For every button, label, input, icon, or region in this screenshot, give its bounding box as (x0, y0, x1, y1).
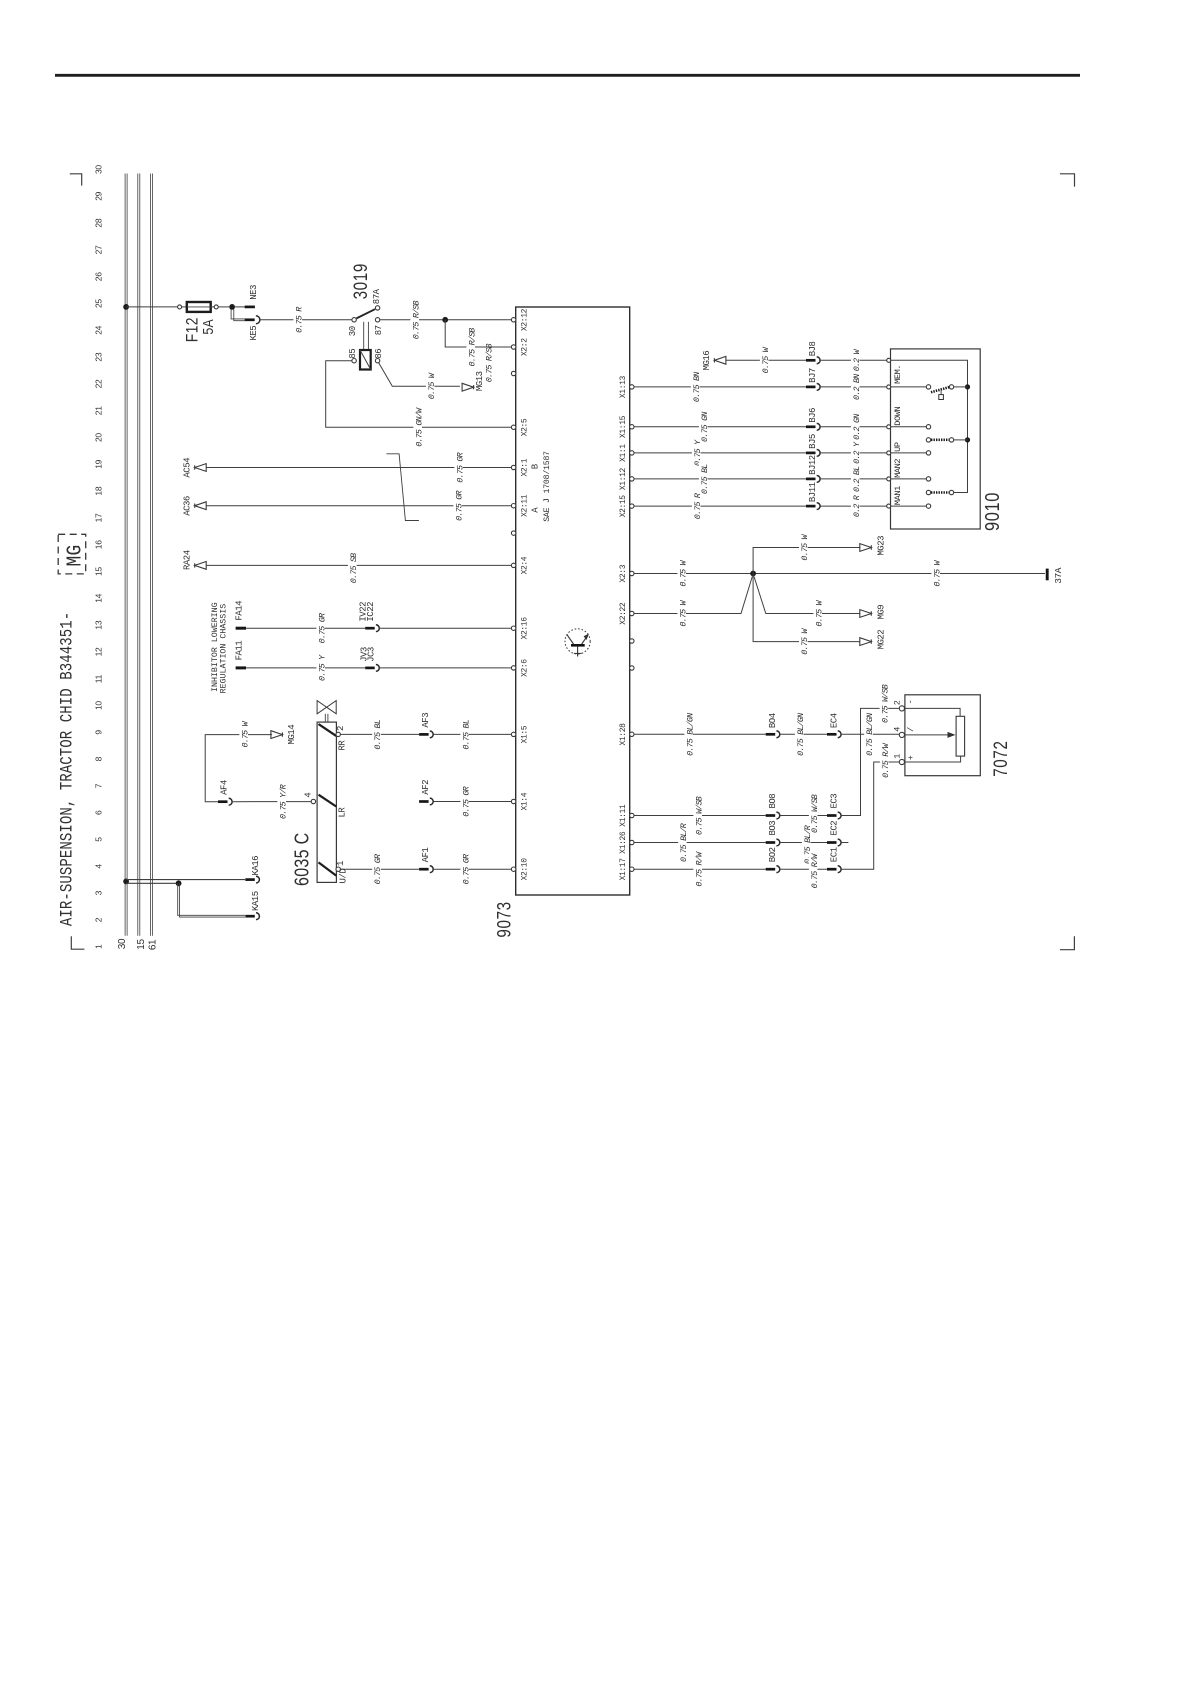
svg-text:X2:2: X2:2 (521, 338, 530, 356)
connector BO3 (766, 841, 776, 844)
9010 pin MAN1 (887, 504, 891, 508)
svg-text:0.2 GN: 0.2 GN (852, 414, 862, 440)
svg-text:X1:26: X1:26 (619, 831, 628, 854)
drawing frame corner mark top-left (70, 174, 82, 186)
wire relay 85 to ECU X2:5, 0.75 GN/W (326, 361, 512, 428)
wire bus 30 to fuse F12 (126, 306, 178, 308)
svg-text:0.75 W: 0.75 W (932, 559, 942, 586)
svg-text:REGULATION CHASSIS: REGULATION CHASSIS (220, 604, 229, 694)
ECU pin X1:11 (630, 813, 634, 817)
svg-text:X2:16: X2:16 (521, 617, 530, 640)
wire branch to ground MG22, 0.75 W (753, 574, 860, 642)
svg-text:0.2 Y: 0.2 Y (852, 441, 862, 464)
connector FA14 (lowering chassis) (236, 627, 246, 630)
svg-text:19: 19 (94, 459, 104, 468)
drawing frame corner mark bottom-right (1060, 936, 1075, 950)
svg-text:AF4: AF4 (220, 780, 230, 795)
svg-text:61: 61 (148, 939, 159, 950)
svg-text:IC22: IC22 (366, 602, 376, 622)
ground point 37A (1046, 569, 1049, 581)
ECU pin X2:12 (511, 318, 515, 322)
wire MG16 to BJ8, 0.75 W (726, 359, 806, 361)
ECU pin X2:2 (511, 345, 515, 349)
svg-text:+: + (906, 755, 916, 760)
wire 6035 U/D to connector AF1, 0.75 GR (340, 868, 419, 870)
ECU pin X2:15 (630, 504, 634, 508)
svg-text:MG13: MG13 (475, 371, 485, 391)
svg-text:MAN1: MAN1 (893, 486, 903, 505)
svg-text:1: 1 (336, 861, 346, 866)
svg-text:U/D: U/D (339, 869, 349, 884)
svg-text:21: 21 (94, 406, 104, 415)
svg-text:MG9: MG9 (877, 605, 887, 620)
ECU pin X1:5 (511, 732, 515, 736)
ground MG22 (860, 638, 872, 646)
connector BJ12 (806, 478, 816, 481)
svg-text:0.75 BL: 0.75 BL (700, 464, 710, 494)
svg-text:7072: 7072 (989, 740, 1011, 776)
svg-text:0.75 BN: 0.75 BN (692, 372, 702, 402)
ECU pin X1:4 (511, 799, 515, 803)
wire ECU X1:26 to BO3, 0.75 BL/R (634, 842, 766, 844)
fuse F12 5A (178, 305, 182, 309)
svg-text:X2:12: X2:12 (521, 308, 530, 331)
9010 contact wires (891, 386, 927, 388)
wire BJ6 to switch 9010, 0.2 GN (820, 426, 887, 428)
ECU pin X2:22 (630, 611, 634, 615)
junction on R/SB wire (442, 317, 448, 323)
wire AF4 to 6035 pin 4, 0.75 Y/R (232, 801, 311, 803)
wire to connector KA15 (double) (178, 883, 245, 915)
relay mechanical link (363, 322, 365, 350)
wire stub NE3 (235, 306, 245, 308)
svg-text:AC36: AC36 (183, 496, 193, 516)
svg-text:NE3: NE3 (249, 285, 259, 300)
switch body 6035 (317, 722, 336, 882)
svg-text:28: 28 (94, 218, 104, 227)
svg-text:0.75 W: 0.75 W (800, 628, 810, 655)
svg-text:6: 6 (94, 810, 104, 815)
svg-text:X1:13: X1:13 (619, 375, 628, 398)
9010 supply rail (891, 360, 968, 492)
svg-text:AC54: AC54 (183, 458, 193, 478)
svg-text:37A: 37A (1053, 567, 1064, 583)
svg-text:X2:3: X2:3 (619, 564, 628, 582)
wire stub after EC2 (841, 842, 848, 844)
svg-text:KA16: KA16 (251, 856, 261, 876)
ground MG13 (462, 383, 474, 391)
wire BO8 to EC3, 0.75 W/SB (780, 815, 827, 817)
wire IC22 to ECU X2:16 (379, 627, 511, 629)
svg-text:3: 3 (94, 890, 104, 895)
control switch 9010 (891, 349, 981, 529)
svg-text:RR: RR (338, 740, 348, 751)
connector AC36 (195, 502, 207, 510)
svg-text:X2:4: X2:4 (521, 556, 530, 574)
svg-text:0.75 W: 0.75 W (800, 533, 810, 560)
connector BJ8 (806, 359, 816, 362)
power bus 15 (137, 174, 139, 936)
ground MG14 (271, 731, 283, 739)
svg-text:0.2 BL: 0.2 BL (852, 466, 862, 492)
wire EC4 to 7072 pin 4, 0.75 BL/GN (841, 733, 899, 735)
ECU pin (unused) (630, 639, 634, 643)
wire BO4 to EC4, 0.75 BL/GN (780, 733, 827, 735)
connector AF3 (419, 733, 429, 736)
svg-text:BO2: BO2 (768, 847, 778, 862)
connector EC4 (827, 733, 837, 736)
svg-text:JC3: JC3 (367, 647, 377, 662)
ECU pin X2:4 (511, 563, 515, 567)
svg-text:12: 12 (94, 647, 104, 656)
connector KE5 (245, 318, 255, 321)
svg-text:16: 16 (94, 540, 104, 549)
twisted pair symbol (386, 454, 419, 521)
svg-text:0.75 BL/R: 0.75 BL/R (679, 823, 689, 862)
svg-text:0.75 W: 0.75 W (678, 599, 688, 626)
connector EC2 (827, 841, 837, 844)
svg-text:BJ6: BJ6 (808, 408, 818, 423)
svg-text:0.75 W: 0.75 W (678, 559, 688, 586)
svg-text:23: 23 (94, 352, 104, 361)
ECU pin X1:13 (630, 385, 634, 389)
svg-text:0.75 R: 0.75 R (294, 307, 304, 333)
svg-text:0.75 BL: 0.75 BL (461, 719, 471, 749)
drawing frame corner mark bottom-left (71, 936, 84, 949)
svg-text:0.75 W: 0.75 W (814, 599, 824, 626)
connector EC3 (827, 814, 837, 817)
ECU pin X1:12 (630, 477, 634, 481)
svg-text:6035 C: 6035 C (291, 832, 313, 886)
ECU pin X2:1 (511, 465, 515, 469)
svg-text:0.75 R/SB: 0.75 R/SB (467, 328, 477, 367)
wire AC54 to ECU X2:1, 0.75 GR (206, 467, 511, 469)
svg-text:4: 4 (94, 864, 104, 869)
svg-text:29: 29 (94, 191, 104, 200)
wire FA14 to connector IV22, 0.75 GR (246, 627, 365, 629)
wire ECU X1:13 to BJ7, 0.75 BN (634, 386, 806, 388)
7072 pin 4 (899, 732, 904, 737)
wire 6035 RR to connector AF3, 0.75 BL (340, 733, 419, 735)
svg-text:X2:11: X2:11 (521, 494, 530, 517)
svg-text:4: 4 (893, 727, 903, 732)
power bus 30 (124, 174, 126, 936)
7072 pin 2 (899, 706, 904, 711)
wire BJ12 to switch 9010, 0.2 BL (820, 478, 887, 480)
page header rule (55, 74, 1080, 77)
connector BO8 (766, 814, 776, 817)
svg-text:EC2: EC2 (829, 821, 839, 836)
9010 pin (supply) (887, 358, 891, 362)
9010 switch MEM blade (926, 385, 930, 389)
svg-text:0.75 BL/GN: 0.75 BL/GN (796, 713, 806, 756)
relay pin 87 (375, 318, 379, 322)
svg-text:7: 7 (94, 783, 104, 788)
connector JV3/JC3 (365, 667, 375, 670)
wire fuse F12 to node NE3 (211, 306, 215, 308)
svg-text:BO4: BO4 (768, 713, 778, 728)
9010 switch MAN1 blade (926, 490, 930, 494)
connector BJ5 (806, 452, 816, 455)
wire ECU X2:3 to ground 37A, 0.75 W (634, 573, 1045, 575)
svg-text:5: 5 (94, 837, 104, 842)
svg-text:27: 27 (94, 245, 104, 254)
svg-text:2: 2 (94, 917, 104, 922)
svg-text:MG: MG (63, 545, 87, 567)
svg-text:0.75 Y: 0.75 Y (317, 654, 327, 681)
svg-text:X2:1: X2:1 (521, 458, 530, 476)
ECU pin (unused) (511, 371, 515, 375)
junction on bus 30 to fuse F12 (123, 304, 129, 310)
svg-text:2: 2 (893, 700, 903, 705)
wire AF1 to ECU X2:10, 0.75 GR (433, 868, 511, 870)
connector KA15 (245, 915, 255, 918)
svg-text:30: 30 (348, 326, 358, 336)
svg-text:8: 8 (94, 756, 104, 761)
connector AF1 (419, 868, 429, 871)
svg-text:0.75 W/SB: 0.75 W/SB (694, 796, 704, 835)
ECU pin X1:26 (630, 840, 634, 844)
svg-text:AF3: AF3 (421, 713, 431, 728)
ECU pin X1:28 (630, 732, 634, 736)
svg-text:EC4: EC4 (829, 713, 839, 728)
svg-text:0.75 GN/W: 0.75 GN/W (414, 407, 424, 447)
svg-text:MG22: MG22 (877, 630, 887, 650)
connector AF2 (419, 800, 429, 803)
9010 contact MAN2 (926, 477, 930, 481)
relay coil pin 86 (375, 359, 379, 363)
svg-text:X1:15: X1:15 (619, 415, 628, 438)
wire ECU X2:15 to BJ11, 0.75 R (634, 505, 806, 507)
svg-text:24: 24 (94, 325, 104, 334)
svg-text:0.75 BL/GN: 0.75 BL/GN (685, 713, 695, 756)
svg-text:9010: 9010 (980, 492, 1003, 531)
svg-text:EC1: EC1 (829, 847, 839, 862)
svg-text:0.75 W: 0.75 W (427, 372, 437, 399)
svg-text:0.2 R: 0.2 R (852, 495, 862, 517)
ECU pin X2:3 (630, 571, 634, 575)
ground MG16 (714, 356, 726, 364)
6035 pin 1 U/D (336, 867, 340, 871)
connector BJ7 (806, 386, 816, 389)
7072 pin 1 (899, 759, 904, 764)
svg-text:MG23: MG23 (877, 536, 887, 556)
wire branch to ground MG23, 0.75 W (753, 548, 860, 574)
svg-text:X2:15: X2:15 (619, 495, 628, 518)
svg-text:MAN2: MAN2 (893, 459, 903, 478)
svg-text:2: 2 (336, 726, 346, 731)
svg-text:0.75 GR: 0.75 GR (317, 613, 327, 643)
svg-text:FA11: FA11 (235, 641, 245, 661)
wire relay 87 to ECU X2:12, 0.75 R/SB (380, 319, 512, 321)
valve symbol on 6035 (317, 701, 336, 714)
wire KE5 to relay pin 30, 0.75 R (260, 319, 352, 321)
svg-text:X1:28: X1:28 (619, 723, 628, 746)
svg-text:X2:5: X2:5 (521, 418, 530, 436)
wire EC3 to 7072 pin 2 (841, 708, 899, 815)
relay pin 87A (375, 306, 379, 310)
svg-text:0.75 GR: 0.75 GR (455, 452, 465, 482)
svg-text:0.75 W: 0.75 W (240, 720, 250, 747)
svg-text:15: 15 (136, 939, 147, 950)
svg-text:0.2 W: 0.2 W (852, 348, 862, 371)
9010 pin UP (887, 451, 891, 455)
wire BJ7 to switch 9010, 0.2 BN (820, 386, 887, 388)
6035 wiper RR (319, 724, 337, 736)
relay coil pin 85 (352, 359, 356, 363)
svg-text:MEM.: MEM. (893, 365, 903, 384)
function group box MG (58, 534, 85, 574)
svg-text:/: / (906, 727, 916, 732)
svg-text:85: 85 (348, 349, 358, 359)
svg-text:0.75 GR: 0.75 GR (454, 491, 464, 521)
svg-text:AIR-SUSPENSION, TRACTOR CHID B: AIR-SUSPENSION, TRACTOR CHID B344351- (57, 612, 77, 926)
svg-text:MG16: MG16 (702, 351, 712, 371)
svg-text:0.2 BN: 0.2 BN (852, 374, 862, 400)
svg-text:X1:4: X1:4 (521, 792, 530, 810)
svg-text:11: 11 (94, 674, 104, 683)
svg-text:AF2: AF2 (421, 780, 431, 795)
svg-text:87: 87 (374, 325, 384, 335)
svg-text:X2:22: X2:22 (619, 602, 628, 625)
9010 contact MAN1 (926, 504, 930, 508)
svg-text:BO3: BO3 (768, 821, 778, 836)
svg-text:LR: LR (338, 807, 348, 818)
electronic control unit 9073 (516, 307, 630, 895)
svg-text:20: 20 (94, 433, 104, 442)
level sensor 7072 (905, 695, 980, 776)
svg-text:0.75 R/W: 0.75 R/W (694, 851, 704, 887)
svg-text:86: 86 (374, 349, 384, 359)
relay pin 30 (352, 318, 356, 322)
svg-text:9: 9 (94, 730, 104, 735)
connector BJ11 (806, 505, 816, 508)
wire BJ5 to switch 9010, 0.2 Y (820, 452, 887, 454)
svg-text:0.75 GN: 0.75 GN (700, 412, 710, 442)
relay coil (360, 350, 371, 370)
svg-text:BJ12: BJ12 (808, 455, 818, 475)
wire bus 30 to KA15 branch (126, 882, 179, 884)
svg-text:AF1: AF1 (421, 848, 431, 863)
svg-text:0.75 Y/R: 0.75 Y/R (278, 784, 288, 819)
ECU pin (unused) (630, 666, 634, 670)
svg-text:SAE J 1708/1587: SAE J 1708/1587 (542, 451, 552, 522)
svg-text:0.75 BL/GN: 0.75 BL/GN (865, 713, 875, 756)
svg-text:26: 26 (94, 272, 104, 281)
svg-text:9073: 9073 (493, 901, 515, 937)
svg-text:FA14: FA14 (235, 601, 245, 621)
svg-text:-: - (906, 700, 916, 705)
svg-text:BJ7: BJ7 (808, 368, 818, 383)
svg-text:25: 25 (94, 299, 104, 308)
ground MG23 (860, 544, 872, 552)
connector FA11 (inhibitor regulation) (236, 666, 246, 669)
wire branch to ground MG9, 0.75 W (754, 577, 860, 614)
svg-text:BJ8: BJ8 (808, 341, 818, 356)
svg-text:10: 10 (94, 701, 104, 710)
svg-text:13: 13 (94, 620, 104, 629)
ECU internal transistor symbol (565, 629, 590, 654)
svg-text:BJ5: BJ5 (808, 434, 818, 449)
svg-text:17: 17 (94, 513, 104, 522)
svg-text:X1:12: X1:12 (619, 467, 628, 490)
ECU pin X2:5 (511, 425, 515, 429)
ECU pin X2:10 (511, 867, 515, 871)
ECU pin X2:6 (511, 666, 515, 670)
svg-text:X1:1: X1:1 (619, 444, 628, 462)
wire to connector KE5 (double power line) (231, 310, 245, 319)
9010 contact UP (926, 451, 930, 455)
drawing frame corner mark top-right (1060, 174, 1075, 187)
9010 pin MEM (887, 385, 891, 389)
wire FA11 to connector JV3, 0.75 Y (246, 667, 365, 669)
9010 pin DOWN (887, 425, 891, 429)
wire AF3 to ECU X1:5, 0.75 BL (433, 733, 511, 735)
connector EC1 (827, 868, 837, 871)
ECU pin X1:1 (630, 451, 634, 455)
wire AF4 to ground MG14, 0.75 W (205, 735, 272, 802)
6035 wiper U/D (319, 862, 337, 875)
6035 wiper LR (319, 795, 337, 807)
svg-text:30: 30 (94, 165, 104, 174)
relay switch blade (356, 309, 375, 318)
svg-text:EC3: EC3 (829, 794, 839, 809)
svg-text:MG14: MG14 (287, 725, 297, 745)
ECU pin X2:16 (511, 626, 515, 630)
9010 switch UP/DOWN blade (926, 438, 930, 442)
wire ECU X1:1 to BJ5, 0.75 Y (634, 452, 806, 454)
svg-text:1: 1 (893, 754, 903, 759)
connector AC54 (195, 464, 207, 472)
svg-text:BO8: BO8 (768, 794, 778, 809)
9010 contact DOWN (926, 425, 930, 429)
wire AF2 to ECU X1:4, 0.75 GR (433, 801, 511, 803)
connector RA24 (195, 562, 207, 570)
wire ECU X1:17 to BO2, 0.75 R/W (634, 868, 766, 870)
connector AF4 (218, 800, 228, 803)
svg-text:0.75 R/W: 0.75 R/W (810, 853, 820, 889)
6035 pin 2 RR (336, 732, 340, 736)
svg-text:KA15: KA15 (251, 891, 261, 911)
svg-text:X2:10: X2:10 (521, 858, 530, 881)
wire ECU X1:11 to BO8, 0.75 W/SB (634, 815, 766, 817)
7072 internal wiring (904, 708, 960, 716)
wire ECU X2:22 to junction, 0.75 W (634, 577, 752, 614)
wire BJ11 to switch 9010, 0.2 R (820, 505, 887, 507)
wire AC36 to ECU X2:11, 0.75 GR (206, 505, 511, 507)
svg-text:X2:6: X2:6 (521, 659, 530, 677)
ECU pin X1:17 (630, 867, 634, 871)
wire JC3 to ECU X2:6 (379, 667, 511, 669)
svg-text:0.75 GR: 0.75 GR (461, 786, 471, 816)
svg-text:0.75 W/SB: 0.75 W/SB (881, 684, 891, 723)
power bus 61 (149, 174, 151, 936)
svg-text:5A: 5A (200, 319, 216, 335)
6035 pin 4 LR (311, 799, 315, 803)
svg-text:0.75 W: 0.75 W (761, 346, 771, 373)
ECU pin X1:15 (630, 425, 634, 429)
svg-text:3019: 3019 (349, 263, 371, 299)
connector KA16 (245, 878, 255, 881)
connector IV22/IC22 (365, 627, 375, 630)
svg-text:0.75 R: 0.75 R (693, 493, 703, 519)
svg-text:KE5: KE5 (249, 326, 259, 341)
wire relay 86 to ground MG13, 0.75 W (379, 363, 460, 387)
wire bus 30 to connector KA16 (126, 879, 245, 881)
svg-text:15: 15 (94, 567, 104, 576)
connector BO4 (766, 733, 776, 736)
svg-text:0.75 GR: 0.75 GR (373, 854, 383, 884)
